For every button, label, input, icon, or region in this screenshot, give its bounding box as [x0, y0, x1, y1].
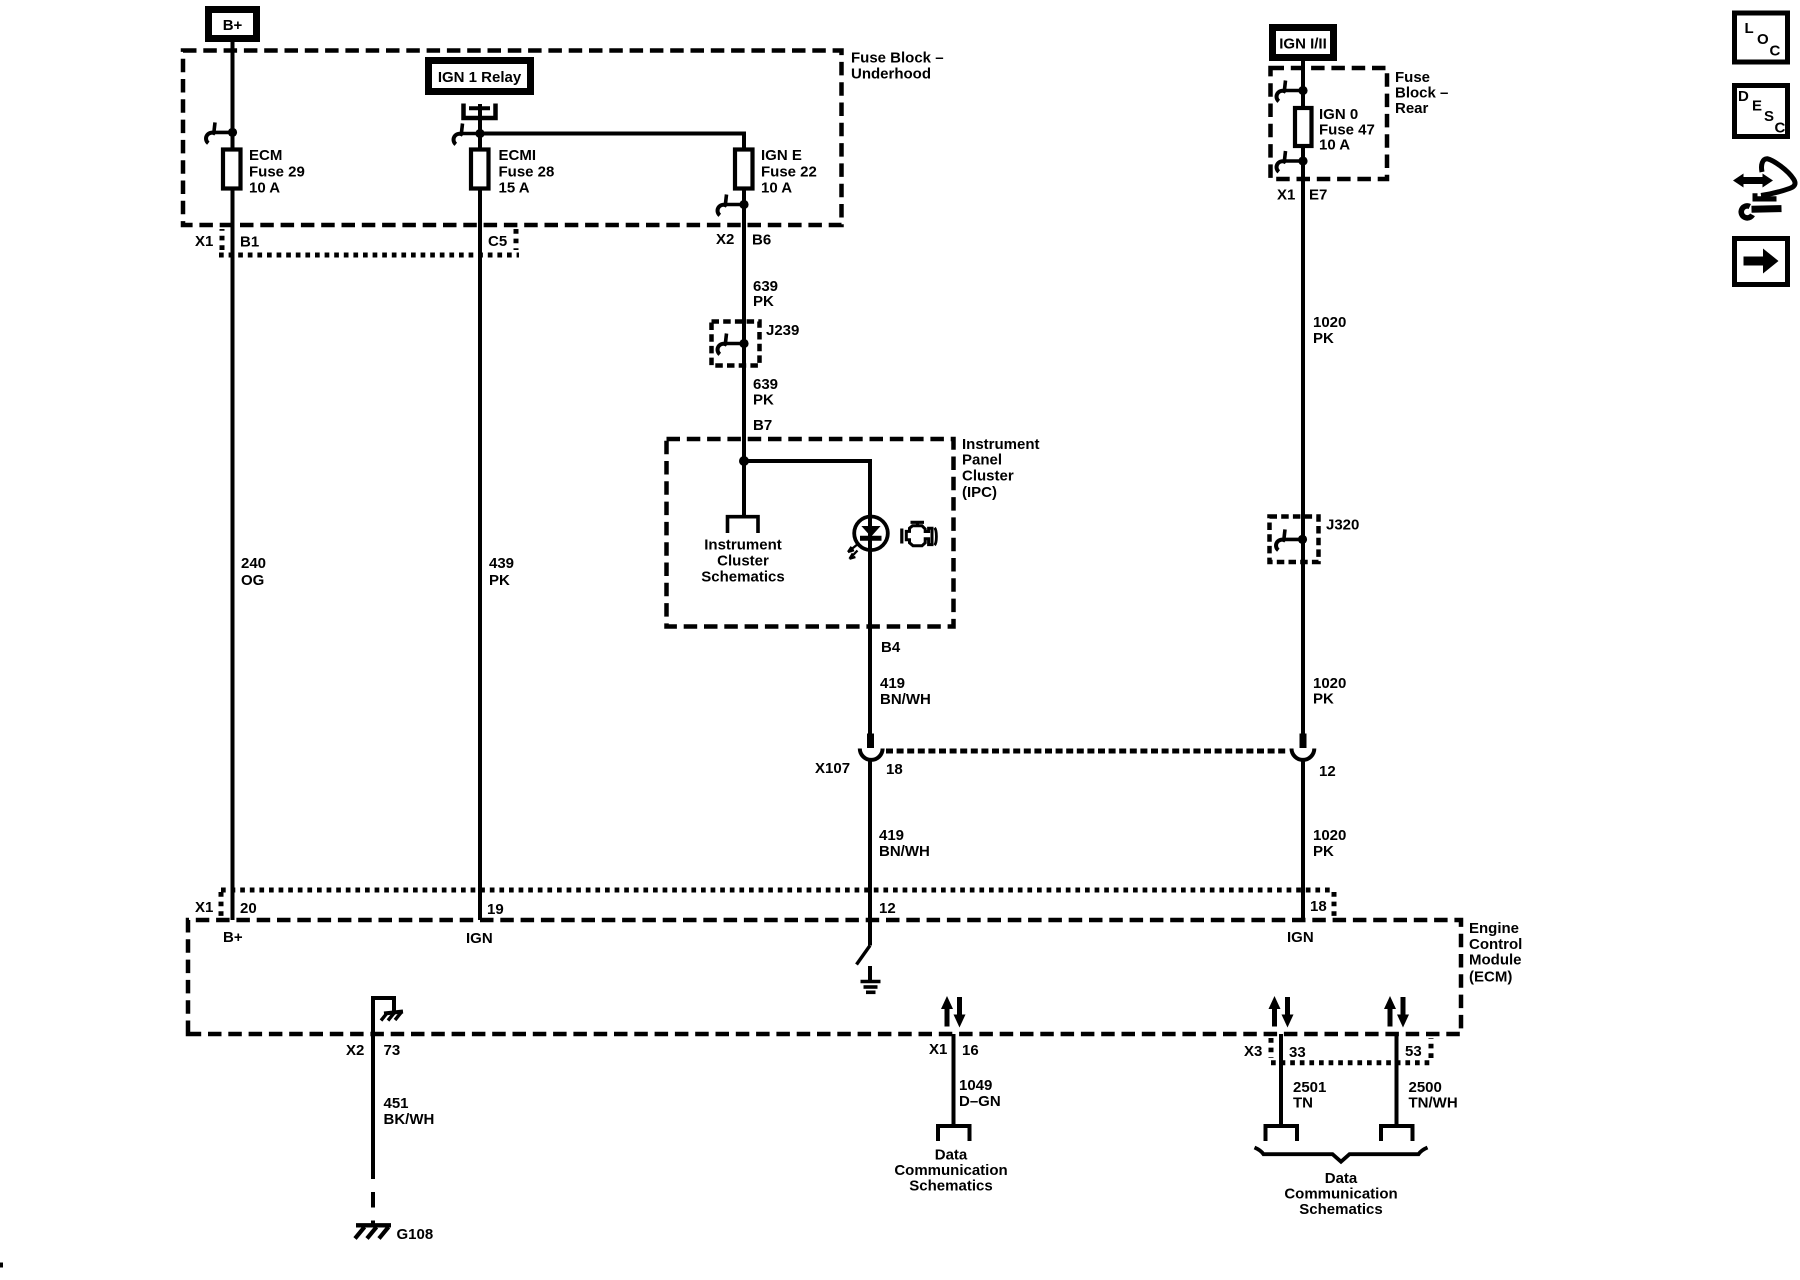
splice clip J320 [1276, 529, 1307, 550]
svg-text:Data: Data [1325, 1170, 1358, 1187]
svg-text:E7: E7 [1309, 187, 1327, 204]
svg-text:18: 18 [886, 761, 903, 778]
fuse ECM Fuse 29 [223, 150, 241, 189]
svg-text:18: 18 [1310, 898, 1327, 915]
wire fuse 47 to X107 right [1301, 146, 1305, 734]
Engine Control Module dashed box [188, 920, 1461, 1034]
svg-text:Rear: Rear [1395, 100, 1429, 117]
svg-text:C5: C5 [488, 233, 507, 250]
svg-text:Cluster: Cluster [717, 553, 769, 570]
connector X1 rail (B1-C5) dotted bracket [222, 229, 516, 250]
wire dashed segment to G108 [371, 1164, 375, 1225]
svg-text:B+: B+ [223, 929, 243, 946]
wire ECM pin 33 to data link [1279, 1034, 1283, 1124]
svg-text:Module: Module [1469, 952, 1522, 969]
svg-text:L: L [1745, 20, 1754, 37]
svg-text:451: 451 [384, 1095, 409, 1112]
terminal clip at fuse 47 bottom [1277, 151, 1308, 172]
wire fuse 28 to ECM pin 19 [478, 190, 482, 921]
speck at left edge [0, 1263, 3, 1268]
node junction in IPC [739, 456, 749, 466]
svg-text:2500: 2500 [1409, 1079, 1442, 1096]
ground symbol (earth) inside ECM [861, 982, 881, 993]
svg-text:TN: TN [1293, 1095, 1313, 1112]
wire ECM pin 53 to data link [1395, 1034, 1399, 1124]
svg-text:X2: X2 [716, 231, 734, 248]
schematic reference bracket (instrument cluster) [728, 517, 759, 533]
icon LOC box [1735, 13, 1788, 62]
indicator LED lamp [848, 516, 888, 559]
fuse ECMI Fuse 28 [471, 150, 489, 189]
svg-text:C: C [1770, 43, 1781, 60]
svg-text:PK: PK [489, 572, 510, 589]
svg-text:B4: B4 [881, 639, 901, 656]
inline connector X107 left half [860, 734, 883, 760]
icon forward arrow box [1735, 239, 1788, 285]
power feed IGN I/II box [1273, 28, 1334, 58]
svg-text:10 A: 10 A [249, 180, 280, 197]
svg-text:15 A: 15 A [499, 180, 530, 197]
splice J320 dashed box [1270, 517, 1319, 563]
svg-text:Fuse 29: Fuse 29 [249, 164, 305, 181]
svg-text:TN/WH: TN/WH [1409, 1095, 1458, 1112]
power feed B+ box [209, 10, 257, 39]
svg-text:BN/WH: BN/WH [879, 843, 930, 860]
wire fuse 22 down to IPC junction [742, 190, 746, 462]
svg-text:PK: PK [753, 293, 774, 310]
svg-text:B6: B6 [752, 232, 771, 249]
terminal clip at relay junction [454, 124, 485, 145]
svg-text:12: 12 [1319, 763, 1336, 780]
svg-text:(IPC): (IPC) [962, 484, 997, 501]
svg-text:PK: PK [1313, 843, 1334, 860]
svg-text:Fuse 28: Fuse 28 [499, 164, 555, 181]
svg-text:16: 16 [962, 1042, 979, 1059]
icon DESC box [1735, 86, 1788, 137]
wire relay to junction [478, 118, 482, 148]
svg-text:IGN: IGN [1287, 929, 1314, 946]
svg-text:419: 419 [880, 675, 905, 692]
svg-text:IGN E: IGN E [761, 147, 802, 164]
relay terminal symbol [464, 104, 496, 119]
svg-text:X1: X1 [195, 233, 213, 250]
svg-text:X3: X3 [1244, 1043, 1262, 1060]
wire junction to cluster schematic ref [742, 461, 746, 515]
fuse IGN 0 Fuse 47 [1295, 108, 1312, 146]
ground G108 chassis symbol [355, 1225, 391, 1238]
bidirectional arrows at pin 53 [1384, 996, 1409, 1028]
svg-text:10 A: 10 A [1319, 137, 1350, 154]
svg-text:439: 439 [489, 555, 514, 572]
svg-text:B1: B1 [240, 234, 259, 251]
svg-text:PK: PK [1313, 691, 1334, 708]
wire IGN I/II to fuse 47 [1301, 61, 1305, 107]
svg-text:C: C [1775, 120, 1786, 137]
svg-text:IGN: IGN [466, 930, 493, 947]
wire fuse 29 to ECM pin 20 [231, 190, 235, 921]
schematic reference bracket pin 53 [1381, 1126, 1413, 1141]
svg-text:BN/WH: BN/WH [880, 691, 931, 708]
svg-text:J320: J320 [1326, 517, 1359, 534]
svg-text:BK/WH: BK/WH [384, 1111, 435, 1128]
svg-text:X107: X107 [815, 760, 850, 777]
svg-text:Engine: Engine [1469, 920, 1519, 937]
svg-text:20: 20 [240, 900, 257, 917]
svg-text:Schematics: Schematics [1299, 1201, 1382, 1218]
svg-text:D: D [1738, 88, 1749, 105]
svg-text:10 A: 10 A [761, 180, 792, 197]
svg-text:Fuse: Fuse [1395, 69, 1430, 86]
svg-text:1020: 1020 [1313, 314, 1346, 331]
svg-text:B7: B7 [753, 417, 772, 434]
svg-text:Fuse 22: Fuse 22 [761, 164, 817, 181]
svg-text:Panel: Panel [962, 452, 1002, 469]
wire ECM pin 73 to G108 [371, 1034, 375, 1164]
switch blade and ground at pin 12 [857, 920, 871, 980]
connector X1 rail at ECM (dotted) [221, 888, 1334, 893]
terminal clip at fuse 47 top [1277, 81, 1308, 102]
wire B+ to ECM fuse 29 [231, 42, 235, 148]
svg-text:J239: J239 [766, 322, 799, 339]
svg-text:Data: Data [935, 1147, 968, 1164]
Fuse Block - Underhood dashed box [183, 51, 842, 226]
svg-text:X1: X1 [195, 899, 213, 916]
svg-text:Instrument: Instrument [704, 537, 782, 554]
terminal clip at fuse 22 bottom [718, 195, 749, 216]
chassis ground symbol inside ECM at pin 73 [373, 998, 403, 1034]
svg-text:X1: X1 [929, 1041, 947, 1058]
wire X107 to ECM pin 12 [868, 759, 872, 921]
svg-text:IGN 0: IGN 0 [1319, 106, 1358, 123]
icon harness repair (arrows and wrench) [1733, 159, 1795, 218]
terminal clip at fuse 29 top [206, 122, 237, 143]
svg-text:1049: 1049 [959, 1077, 992, 1094]
bidirectional arrows at pin 16 [941, 996, 966, 1028]
svg-text:X2: X2 [346, 1042, 364, 1059]
svg-text:2501: 2501 [1293, 1079, 1326, 1096]
svg-text:33: 33 [1289, 1044, 1306, 1061]
svg-text:419: 419 [879, 827, 904, 844]
svg-text:Communication: Communication [1284, 1186, 1397, 1203]
svg-text:IGN 1 Relay: IGN 1 Relay [438, 69, 522, 86]
wire ECM pin 16 to data link [952, 1034, 956, 1124]
wire LED to X107 [868, 550, 872, 734]
svg-text:X1: X1 [1277, 187, 1295, 204]
svg-text:D–GN: D–GN [959, 1093, 1001, 1110]
svg-text:E: E [1752, 98, 1762, 115]
Fuse Block - Rear dashed box [1271, 68, 1388, 179]
svg-text:Communication: Communication [894, 1162, 1007, 1179]
svg-text:1020: 1020 [1313, 827, 1346, 844]
connector X3 dotted bracket [1271, 1038, 1431, 1063]
splice clip J239 [718, 334, 749, 355]
svg-text:Block –: Block – [1395, 85, 1448, 102]
schematic reference bracket pin 16 [938, 1126, 970, 1141]
svg-text:Schematics: Schematics [701, 569, 784, 586]
relay IGN 1 Relay box [429, 61, 531, 92]
svg-text:639: 639 [753, 376, 778, 393]
svg-text:S: S [1764, 108, 1774, 125]
bidirectional arrows at pin 33 [1269, 996, 1294, 1028]
svg-text:Schematics: Schematics [909, 1178, 992, 1195]
rail end caps [221, 892, 1334, 918]
svg-text:ECMI: ECMI [499, 147, 537, 164]
svg-text:Instrument: Instrument [962, 436, 1040, 453]
svg-text:IGN I/II: IGN I/II [1279, 36, 1327, 53]
svg-text:B+: B+ [223, 17, 243, 34]
Instrument Panel Cluster dashed box [667, 439, 954, 627]
svg-text:73: 73 [384, 1042, 401, 1059]
svg-text:OG: OG [241, 572, 264, 589]
svg-text:Underhood: Underhood [851, 66, 931, 83]
wire junction to indicator branch [744, 461, 870, 516]
svg-text:1020: 1020 [1313, 675, 1346, 692]
svg-text:12: 12 [879, 900, 896, 917]
svg-text:(ECM): (ECM) [1469, 969, 1512, 986]
schematic reference bracket pin 33 [1266, 1126, 1298, 1141]
svg-text:Cluster: Cluster [962, 468, 1014, 485]
svg-text:Control: Control [1469, 936, 1522, 953]
svg-text:19: 19 [487, 901, 504, 918]
svg-text:PK: PK [1313, 330, 1334, 347]
wire relay junction to IGN E fuse [480, 134, 744, 150]
svg-text:O: O [1757, 31, 1769, 48]
inline connector X107 right half [1292, 734, 1315, 760]
splice J239 dashed box [712, 322, 760, 366]
svg-text:53: 53 [1405, 1043, 1422, 1060]
curly brace under data links [1255, 1148, 1428, 1162]
engine icon (MIL) [902, 522, 937, 546]
connector X107 dotted link [886, 749, 1288, 754]
svg-text:PK: PK [753, 392, 774, 409]
svg-text:G108: G108 [397, 1226, 434, 1243]
fuse IGN E Fuse 22 [735, 150, 753, 189]
wire X107 right to ECM pin 18 [1301, 759, 1305, 921]
svg-text:ECM: ECM [249, 147, 282, 164]
svg-text:Fuse Block –: Fuse Block – [851, 50, 944, 67]
svg-text:240: 240 [241, 555, 266, 572]
